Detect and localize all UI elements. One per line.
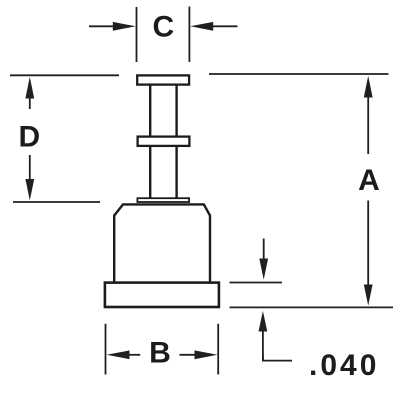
- part thin collar flange: [137, 198, 189, 202]
- dimension .040 up arrow: [259, 311, 268, 360]
- part shaft lower segment left line: [149, 146, 151, 198]
- dimension D up arrow: [25, 77, 34, 109]
- dimension C left extension line: [136, 7, 138, 62]
- part middle washer flange: [138, 137, 190, 146]
- top reference line right segment: [209, 73, 389, 75]
- svg-text:B: B: [149, 337, 171, 370]
- dimension .040 leader elbow: [263, 355, 292, 361]
- dimension C right extension line: [188, 7, 190, 63]
- part body with chamfered shoulders: [114, 204, 210, 282]
- dimension .040 down arrow: [259, 239, 268, 280]
- svg-text:.040: .040: [309, 349, 379, 382]
- dimension A lower shaft and down arrow: [364, 201, 373, 306]
- dimension B left arrow: [107, 350, 141, 359]
- dimension .040 top extension line: [230, 282, 283, 284]
- part shaft lower segment right line: [175, 146, 177, 198]
- part shaft upper segment left line: [149, 84, 151, 137]
- part base flange: [105, 283, 219, 307]
- dimension C left arrow: [89, 22, 136, 31]
- dimension D bottom line: [13, 201, 100, 203]
- dimension B left extension line: [105, 324, 107, 375]
- part top washer flange: [137, 75, 189, 84]
- part shaft upper segment right line: [175, 84, 177, 137]
- dimension C right arrow: [190, 22, 237, 31]
- dimension A up arrow: [364, 76, 373, 154]
- bottom reference line: [230, 306, 394, 308]
- top reference line left segment: [10, 74, 119, 76]
- svg-text:A: A: [358, 164, 380, 197]
- svg-text:D: D: [18, 120, 40, 153]
- svg-text:C: C: [152, 10, 174, 43]
- dimension B right extension line: [217, 324, 219, 375]
- dimension B right arrow: [180, 350, 218, 359]
- dimension D down arrow: [25, 155, 34, 200]
